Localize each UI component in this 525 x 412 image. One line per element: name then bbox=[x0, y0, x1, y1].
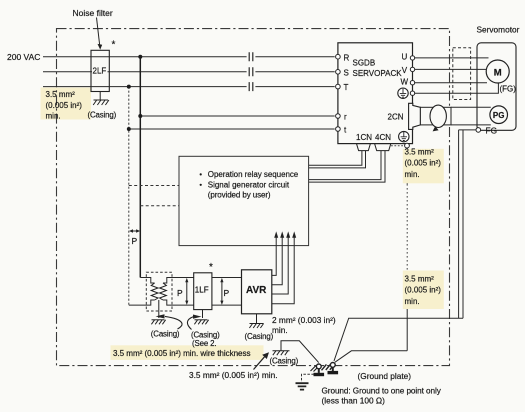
svg-text:P: P bbox=[177, 288, 183, 298]
terminal R bbox=[336, 53, 350, 62]
svg-text:P: P bbox=[132, 236, 138, 246]
2CN connector and encoder cable bbox=[388, 103, 452, 131]
svg-text:(less than 100 Ω): (less than 100 Ω) bbox=[322, 396, 386, 406]
svg-text:SGDB: SGDB bbox=[353, 59, 376, 68]
highlight 3.5mm note top-left bbox=[41, 88, 92, 120]
svg-text:(provided by user): (provided by user) bbox=[208, 190, 271, 199]
earth ground symbol bbox=[296, 383, 309, 389]
SGDB SERVOPACK unit bbox=[338, 43, 413, 144]
encoder cable wires to PG bbox=[451, 107, 491, 125]
node tap A on phase R bbox=[138, 55, 142, 278]
svg-text:r: r bbox=[344, 113, 347, 122]
P spacing arrow between taps bbox=[129, 229, 140, 233]
relay sequence box bbox=[179, 156, 309, 245]
dashed control wire to relay box 1 bbox=[129, 185, 192, 187]
ground plate bbox=[311, 363, 339, 377]
node tap B on phase T bbox=[127, 85, 131, 306]
svg-text:min.: min. bbox=[272, 325, 288, 335]
wire phase S bbox=[43, 71, 335, 73]
terminal S bbox=[336, 68, 349, 77]
transformer dashed outline bbox=[146, 272, 172, 311]
ground casing of 1LF bbox=[194, 310, 208, 325]
svg-text:3.5 mm²: 3.5 mm² bbox=[405, 148, 435, 157]
svg-text:*: * bbox=[209, 262, 213, 273]
casing near ground plate with wire bbox=[273, 341, 319, 363]
svg-text:3.5 mm² (0.005 in²) min. wire: 3.5 mm² (0.005 in²) min. wire thickness bbox=[113, 349, 250, 358]
terminal t bbox=[336, 126, 347, 135]
FG terminal on motor bbox=[476, 125, 497, 135]
svg-text:1LF: 1LF bbox=[195, 286, 209, 295]
svg-text:PG: PG bbox=[493, 111, 505, 120]
ground casing of AVR bbox=[249, 314, 263, 328]
svg-text:V: V bbox=[402, 66, 408, 75]
svg-text:200 VAC: 200 VAC bbox=[7, 52, 40, 62]
wire r control line bbox=[140, 115, 334, 117]
protective earth terminal (top) bbox=[398, 88, 415, 98]
terminal T bbox=[336, 83, 349, 92]
svg-text:*: * bbox=[112, 40, 116, 51]
highlight 3.5mm note at 2CN bbox=[403, 149, 444, 184]
svg-text:Noise filter: Noise filter bbox=[73, 8, 113, 18]
FG ground wire pair to ground plate bbox=[334, 130, 476, 361]
svg-text:Servomotor: Servomotor bbox=[477, 25, 520, 35]
svg-text:min.: min. bbox=[405, 297, 420, 306]
svg-text:(See 2.: (See 2. bbox=[192, 339, 216, 348]
svg-text:3.5 mm²: 3.5 mm² bbox=[405, 275, 435, 284]
noise filter 2LF body bbox=[91, 50, 109, 91]
ground casing of 2LF bbox=[93, 92, 109, 106]
highlight 3.5mm wire thickness bottom band bbox=[111, 345, 264, 360]
svg-text:FG: FG bbox=[486, 125, 498, 135]
encoder PG bbox=[490, 106, 508, 124]
svg-text:2 mm² (0.003 in²): 2 mm² (0.003 in²) bbox=[272, 315, 336, 325]
casing leader arrow to transformer tap bbox=[156, 314, 183, 329]
svg-text:(FG): (FG) bbox=[500, 84, 517, 93]
transformer casing tap bbox=[151, 300, 165, 324]
wires 4CN to relay box bbox=[309, 151, 385, 183]
svg-text:AVR: AVR bbox=[246, 285, 267, 296]
motor M bbox=[486, 60, 509, 83]
svg-text:(Ground plate): (Ground plate) bbox=[358, 371, 412, 381]
terminal r bbox=[336, 113, 347, 122]
protective earth terminal (bottom) bbox=[391, 131, 409, 148]
svg-text:SERVOPACK: SERVOPACK bbox=[353, 69, 403, 78]
P arrow 1LF to AVR bbox=[220, 278, 223, 305]
wires 1CN to relay box bbox=[309, 151, 366, 168]
text 3.5mm right side bbox=[405, 275, 442, 307]
transformer windings bbox=[151, 283, 166, 300]
dashed cable sheath bbox=[453, 48, 471, 100]
svg-text:(Casing): (Casing) bbox=[151, 330, 180, 339]
dashed control wire to relay box 2 bbox=[140, 205, 192, 207]
svg-text:(0.005 in²): (0.005 in²) bbox=[405, 286, 442, 295]
svg-text:3.5 mm²: 3.5 mm² bbox=[46, 90, 76, 99]
4CN connector bbox=[375, 133, 392, 151]
svg-text:1CN: 1CN bbox=[356, 133, 372, 142]
wire phase R bbox=[43, 56, 335, 58]
svg-text:M: M bbox=[494, 67, 502, 78]
text 3.5mm at 2CN bbox=[405, 148, 442, 180]
contactor contacts on R S T bbox=[249, 52, 253, 91]
svg-text:min.: min. bbox=[405, 170, 420, 179]
svg-text:(0.005 in²): (0.005 in²) bbox=[405, 159, 442, 168]
svg-text:2LF: 2LF bbox=[93, 67, 107, 76]
svg-text:R: R bbox=[344, 53, 350, 62]
svg-text:2CN: 2CN bbox=[388, 113, 404, 122]
motor power wires U V W bbox=[415, 58, 489, 83]
P arrow transformer to 1LF bbox=[185, 278, 188, 305]
enclosure dash-dot border bbox=[57, 29, 450, 366]
transformer feed rails bbox=[129, 278, 242, 306]
svg-text:Signal generator circuit: Signal generator circuit bbox=[208, 181, 290, 190]
wire plate to earth ground bbox=[302, 374, 314, 382]
svg-text:min.: min. bbox=[46, 112, 61, 121]
ground wire servopack to ground plate bbox=[335, 148, 407, 362]
terminal W bbox=[401, 78, 415, 87]
text 3.5mm top-left bbox=[46, 90, 83, 121]
leader arrow from 3.5mm note to casing bbox=[254, 352, 270, 369]
svg-text:Ground: Ground to one point on: Ground: Ground to one point only bbox=[322, 387, 442, 396]
signal wires AVR to relay box with arrows bbox=[272, 237, 294, 304]
svg-text:W: W bbox=[401, 78, 409, 87]
wire t control line bbox=[129, 128, 335, 130]
terminal U bbox=[402, 52, 415, 61]
svg-text:U: U bbox=[402, 52, 408, 61]
noise filter 2LF label bbox=[92, 65, 108, 76]
motor ground wire to FG bbox=[415, 83, 499, 93]
svg-text:3.5 mm² (0.005 in²) min.: 3.5 mm² (0.005 in²) min. bbox=[189, 370, 278, 380]
filter 1LF bbox=[194, 273, 212, 310]
svg-text:T: T bbox=[344, 83, 349, 92]
svg-text:(Casing): (Casing) bbox=[88, 111, 117, 120]
svg-text:4CN: 4CN bbox=[375, 133, 391, 142]
svg-text:(Casing): (Casing) bbox=[270, 357, 299, 366]
svg-text:Operation relay sequence: Operation relay sequence bbox=[208, 170, 299, 179]
highlight 3.5mm note right side bbox=[403, 271, 444, 310]
svg-text:(Casing): (Casing) bbox=[245, 332, 274, 341]
svg-text:(0.005 in²): (0.005 in²) bbox=[46, 101, 83, 110]
svg-text:S: S bbox=[344, 68, 349, 77]
servomotor unit bbox=[477, 43, 516, 131]
svg-text:P: P bbox=[224, 288, 230, 298]
casing leader arrow to 1LF ground bbox=[187, 315, 201, 330]
noise filter leader arrow bbox=[97, 18, 103, 50]
AVR unit bbox=[242, 270, 272, 314]
terminal V bbox=[402, 66, 415, 75]
1CN connector bbox=[356, 133, 372, 151]
wire phase T bbox=[43, 86, 335, 88]
